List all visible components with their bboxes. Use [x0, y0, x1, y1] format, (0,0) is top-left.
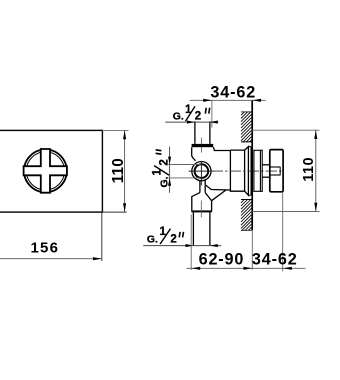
- svg-text:156: 156: [31, 240, 60, 257]
- cone rim line: [250, 147, 252, 196]
- knob hub lines: [270, 166, 280, 168]
- svg-text:34-62: 34-62: [210, 84, 256, 102]
- dimension 110 left arrows: [123, 130, 126, 139]
- dimension 110 right line: [315, 130, 317, 211]
- wall hatch top: [241, 112, 252, 142]
- svg-text:1: 1: [152, 169, 164, 176]
- dimension 34-62 top line: [190, 99, 266, 101]
- knob: [270, 150, 283, 192]
- plate top extension line: [102, 129, 128, 131]
- body lower-right diagonal from circle: [206, 185, 231, 190]
- web diagonal: [212, 190, 226, 201]
- handle outer circle: [24, 150, 67, 193]
- right 110 extension lines: [252, 129, 320, 131]
- svg-text:110: 110: [301, 157, 317, 182]
- top 34-62 arrows: [203, 99, 212, 102]
- bottom dimension row line: [187, 267, 306, 269]
- hatch bottom borders: [241, 199, 252, 201]
- bottom row extensions: [190, 215, 192, 270]
- handle cross: [24, 149, 67, 193]
- block centerline: [200, 200, 202, 217]
- body right outline to barrel top: [213, 147, 230, 150]
- hatch top borders: [241, 111, 252, 113]
- stem to knob: [262, 164, 270, 166]
- upper pipe centerline: [200, 138, 202, 153]
- side port inner circle: [195, 164, 209, 178]
- svg-text:34-62: 34-62: [252, 251, 298, 269]
- plate right edge extension down: [101, 212, 103, 261]
- plate bottom extension line: [102, 211, 127, 213]
- cartridge housing: [230, 150, 244, 191]
- bottom pipe: [192, 212, 194, 245]
- dimension 110 left line: [124, 130, 126, 212]
- sleeve behind wall: [253, 150, 255, 192]
- wall face extension down: [251, 230, 253, 269]
- knob hub end line: [279, 167, 281, 176]
- lower block: [192, 193, 212, 211]
- upper flange bar: [192, 144, 214, 147]
- svg-text:G.: G.: [147, 233, 158, 245]
- top 34-62 extension left: [211, 100, 213, 127]
- body left outline: [192, 147, 196, 161]
- svg-text:G.: G.: [173, 111, 184, 123]
- lower block bottom bar: [191, 210, 212, 212]
- upper pipe: [194, 121, 196, 144]
- 34-62 bottom right arrow: [283, 267, 292, 270]
- G 1/2 middle rotated label: [152, 150, 171, 188]
- side port outer circle: [192, 162, 211, 181]
- middle dim vertical line: [169, 147, 171, 193]
- G 1/2 bottom underline/dim: [143, 245, 221, 247]
- svg-text:2: 2: [170, 233, 176, 245]
- wall plate front view: [0, 130, 102, 212]
- stem below circle: [199, 180, 201, 192]
- 62-90 arrows: [192, 267, 201, 270]
- svg-text:62-90: 62-90: [199, 251, 245, 269]
- middle extension lines to port: [168, 164, 200, 166]
- G 1/2 bottom label: [147, 226, 184, 246]
- wall hatch bottom: [241, 200, 252, 231]
- side port crosshair: [189, 170, 215, 172]
- dimension 156 arrow: [93, 257, 102, 260]
- G 1/2 top label: [173, 104, 210, 123]
- dimension 156 line: [0, 258, 102, 260]
- svg-text:1: 1: [185, 104, 192, 116]
- handle inner circle: [26, 152, 64, 190]
- svg-text:2: 2: [195, 111, 201, 123]
- wall face line thick: [251, 100, 253, 230]
- escutcheon cone: [245, 147, 249, 196]
- horizontal centerline dash-dot: [212, 170, 284, 172]
- svg-text:110: 110: [110, 158, 127, 183]
- G 1/2 top underline/dim: [165, 121, 218, 123]
